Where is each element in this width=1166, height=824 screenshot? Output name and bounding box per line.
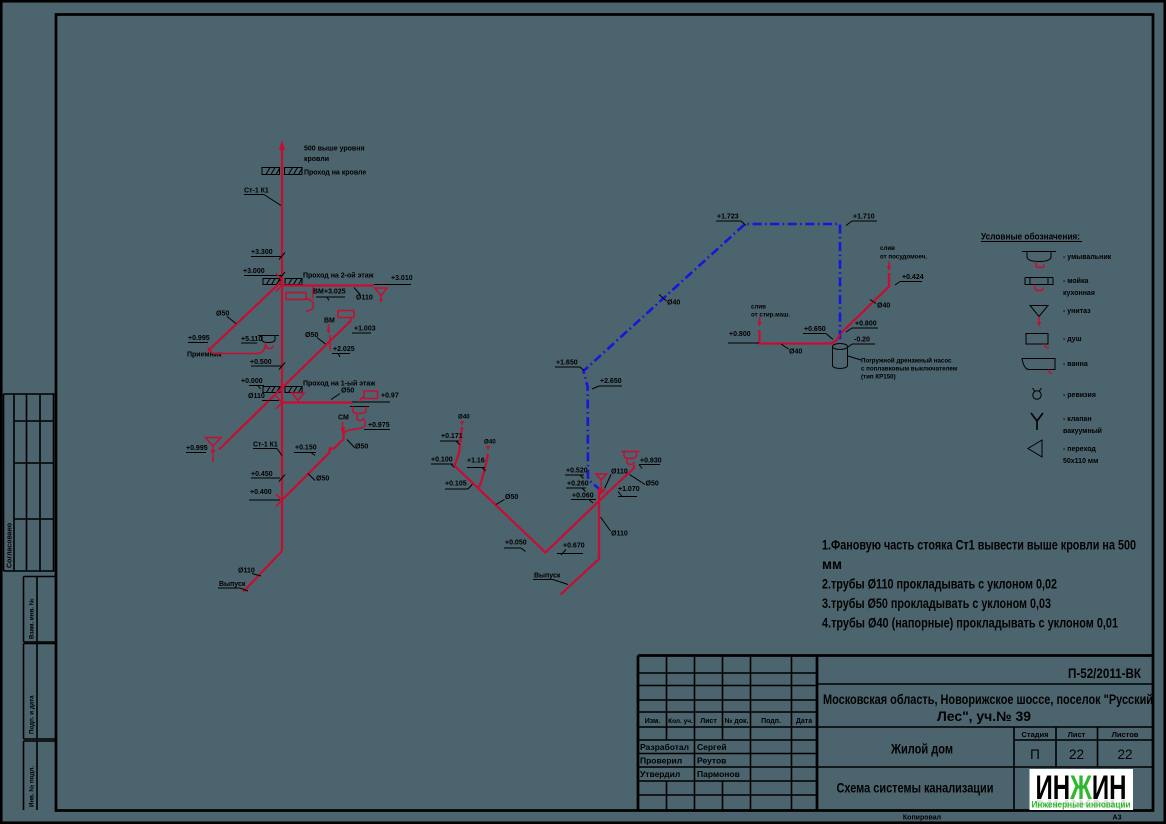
svg-text:Схема системы канализации: Схема системы канализации [837, 781, 994, 796]
svg-text:слив: слив [751, 304, 766, 311]
svg-text:Московская область, Новорижско: Московская область, Новорижское шоссе, п… [823, 692, 1153, 707]
svg-text:+0.995: +0.995 [186, 445, 208, 452]
svg-text:+3.300: +3.300 [251, 249, 273, 256]
svg-text:Инв. № подл.: Инв. № подл. [29, 766, 36, 807]
svg-text:- ванна: - ванна [1063, 361, 1088, 368]
svg-text:Ø40: Ø40 [877, 303, 890, 310]
svg-text:Условные обозначения:: Условные обозначения: [981, 232, 1080, 243]
svg-text:Жилой дом: Жилой дом [890, 742, 953, 757]
svg-text:+0.800: +0.800 [729, 331, 751, 338]
svg-text:Взам. инв. №: Взам. инв. № [29, 598, 36, 639]
svg-text:+0.100: +0.100 [431, 457, 453, 464]
svg-text:Ø110: Ø110 [356, 295, 373, 302]
svg-text:Ø110: Ø110 [611, 531, 628, 538]
svg-text:Проход на 1-ый этаж: Проход на 1-ый этаж [303, 380, 376, 388]
svg-text:Ст-1 К1: Ст-1 К1 [244, 188, 269, 195]
svg-text:- ревизия: - ревизия [1063, 392, 1096, 399]
svg-text:- переход: - переход [1063, 446, 1096, 453]
svg-text:кухонная: кухонная [1063, 290, 1095, 297]
svg-text:+0.060: +0.060 [572, 493, 594, 500]
svg-text:3.трубы Ø50 прокладывать с укл: 3.трубы Ø50 прокладывать с уклоном 0,03 [822, 596, 1051, 611]
svg-text:+1.710: +1.710 [853, 214, 875, 221]
svg-text:Кол. уч.: Кол. уч. [668, 718, 693, 725]
svg-text:2.трубы Ø110 прокладывать с ук: 2.трубы Ø110 прокладывать с уклоном 0,02 [822, 577, 1057, 592]
svg-text:Реутов: Реутов [697, 756, 726, 766]
svg-text:+1.650: +1.650 [556, 360, 578, 367]
svg-text:Ø110: Ø110 [611, 469, 628, 476]
svg-text:Ø50: Ø50 [646, 481, 659, 488]
svg-text:22: 22 [1069, 747, 1084, 762]
svg-text:Погружной дренажный насос: Погружной дренажный насос [861, 358, 952, 365]
svg-text:- мойка: - мойка [1063, 277, 1088, 285]
svg-text:+3.010: +3.010 [391, 275, 413, 282]
svg-text:Сергей: Сергей [697, 742, 727, 752]
svg-text:+0.500: +0.500 [250, 359, 272, 366]
svg-text:Проход на 2-ой этаж: Проход на 2-ой этаж [303, 272, 375, 280]
svg-text:Ø40: Ø40 [789, 349, 802, 356]
svg-text:мм: мм [822, 557, 842, 572]
svg-text:+5.110: +5.110 [241, 336, 262, 343]
svg-text:А3: А3 [1113, 815, 1122, 822]
svg-text:Копировал: Копировал [903, 815, 941, 822]
svg-text:Лес", уч.№ 39: Лес", уч.№ 39 [937, 709, 1031, 724]
svg-text:Проход на кровле: Проход на кровле [304, 170, 366, 177]
svg-text:- клапан: - клапан [1063, 416, 1092, 423]
svg-text:+0.424: +0.424 [902, 274, 924, 281]
svg-text:Проверил: Проверил [640, 756, 682, 766]
svg-text:Согласовано: Согласовано [7, 523, 14, 568]
svg-text:500 выше уровня: 500 выше уровня [304, 146, 365, 153]
svg-text:Ст-1 К1: Ст-1 К1 [253, 442, 278, 449]
svg-text:+0.97: +0.97 [381, 393, 399, 400]
svg-text:кровли: кровли [304, 156, 329, 163]
svg-text:Листов: Листов [1112, 730, 1139, 739]
svg-text:+3.025: +3.025 [324, 289, 346, 296]
svg-text:Выпуск: Выпуск [219, 581, 246, 588]
svg-text:+1.003: +1.003 [354, 326, 376, 333]
svg-text:Ø50: Ø50 [305, 332, 318, 339]
svg-text:Ø40: Ø40 [484, 439, 496, 446]
svg-text:Утвердил: Утвердил [640, 769, 680, 779]
svg-text:Дата: Дата [796, 718, 812, 725]
svg-text:Ø110: Ø110 [248, 393, 265, 400]
svg-text:+0.171: +0.171 [441, 433, 463, 440]
svg-text:+2.025: +2.025 [333, 346, 355, 353]
svg-text:+0.050: +0.050 [505, 540, 527, 547]
svg-text:№ док.: № док. [725, 717, 749, 725]
svg-text:+1.723: +1.723 [717, 214, 739, 221]
svg-text:+0.650: +0.650 [804, 326, 826, 333]
svg-text:- душ: - душ [1063, 336, 1082, 343]
svg-text:П-52/2011-ВК: П-52/2011-ВК [1068, 666, 1142, 681]
svg-text:+0.975: +0.975 [368, 422, 390, 429]
svg-text:+0.670: +0.670 [563, 543, 585, 550]
svg-text:(тип КР150): (тип КР150) [861, 374, 896, 381]
svg-text:Ø40: Ø40 [667, 300, 680, 307]
svg-text:+0.995: +0.995 [188, 335, 210, 342]
svg-text:Ø50: Ø50 [355, 444, 368, 451]
svg-text:- унитаз: - унитаз [1063, 308, 1091, 315]
svg-text:+1.070: +1.070 [618, 486, 640, 493]
svg-text:+0.800: +0.800 [855, 321, 877, 328]
svg-text:+0.000: +0.000 [241, 378, 263, 385]
svg-text:50x110 мм: 50x110 мм [1063, 458, 1098, 465]
svg-text:от стир.маш.: от стир.маш. [751, 312, 790, 319]
svg-text:Изм.: Изм. [645, 718, 661, 725]
svg-text:Ø40: Ø40 [458, 414, 470, 421]
svg-text:Лист: Лист [700, 718, 717, 725]
svg-text:Лист: Лист [1068, 730, 1086, 739]
svg-text:22: 22 [1117, 747, 1132, 762]
svg-text:+0.105: +0.105 [445, 481, 467, 488]
svg-text:ВМ: ВМ [313, 289, 324, 296]
svg-text:Ø50: Ø50 [505, 494, 518, 501]
svg-text:Приемник: Приемник [187, 352, 222, 359]
svg-text:+0.520: +0.520 [566, 468, 588, 475]
svg-text:+0.400: +0.400 [250, 489, 272, 496]
svg-text:- умывальник: - умывальник [1063, 254, 1112, 261]
svg-text:+0.930: +0.930 [640, 458, 662, 465]
svg-text:с поплавковым выключателем: с поплавковым выключателем [861, 366, 958, 373]
svg-text:Подп.: Подп. [761, 718, 781, 725]
svg-text:+0.260: +0.260 [567, 481, 589, 488]
svg-text:4.трубы Ø40 (напорные) проклад: 4.трубы Ø40 (напорные) прокладывать с ук… [822, 616, 1118, 631]
svg-text:+1.16: +1.16 [467, 458, 485, 465]
svg-text:СМ: СМ [338, 415, 349, 422]
svg-text:Пармонов: Пармонов [697, 769, 740, 779]
svg-text:П: П [1030, 747, 1040, 762]
svg-text:+3.000: +3.000 [243, 268, 265, 275]
svg-text:Инженерные инновации: Инженерные инновации [1032, 800, 1131, 810]
svg-text:Выпуск: Выпуск [534, 573, 561, 580]
svg-text:+2.650: +2.650 [600, 378, 622, 385]
svg-text:ВМ: ВМ [324, 318, 335, 325]
svg-text:вакуумный: вакуумный [1063, 427, 1102, 435]
svg-text:Ø50: Ø50 [316, 476, 329, 483]
svg-text:Подп. и дата: Подп. и дата [29, 695, 36, 734]
svg-text:Стадия: Стадия [1021, 730, 1048, 739]
svg-text:слив: слив [880, 245, 895, 252]
svg-text:Ø50: Ø50 [341, 388, 354, 395]
svg-text:Разработал: Разработал [640, 742, 689, 752]
svg-text:-0.20: -0.20 [854, 337, 870, 344]
svg-text:от посудомоеч.: от посудомоеч. [880, 254, 927, 261]
svg-text:+0.450: +0.450 [251, 471, 273, 478]
svg-text:+0.150: +0.150 [295, 445, 317, 452]
svg-text:1.Фановую часть стояка Ст1 выв: 1.Фановую часть стояка Ст1 вывести выше … [822, 538, 1136, 553]
